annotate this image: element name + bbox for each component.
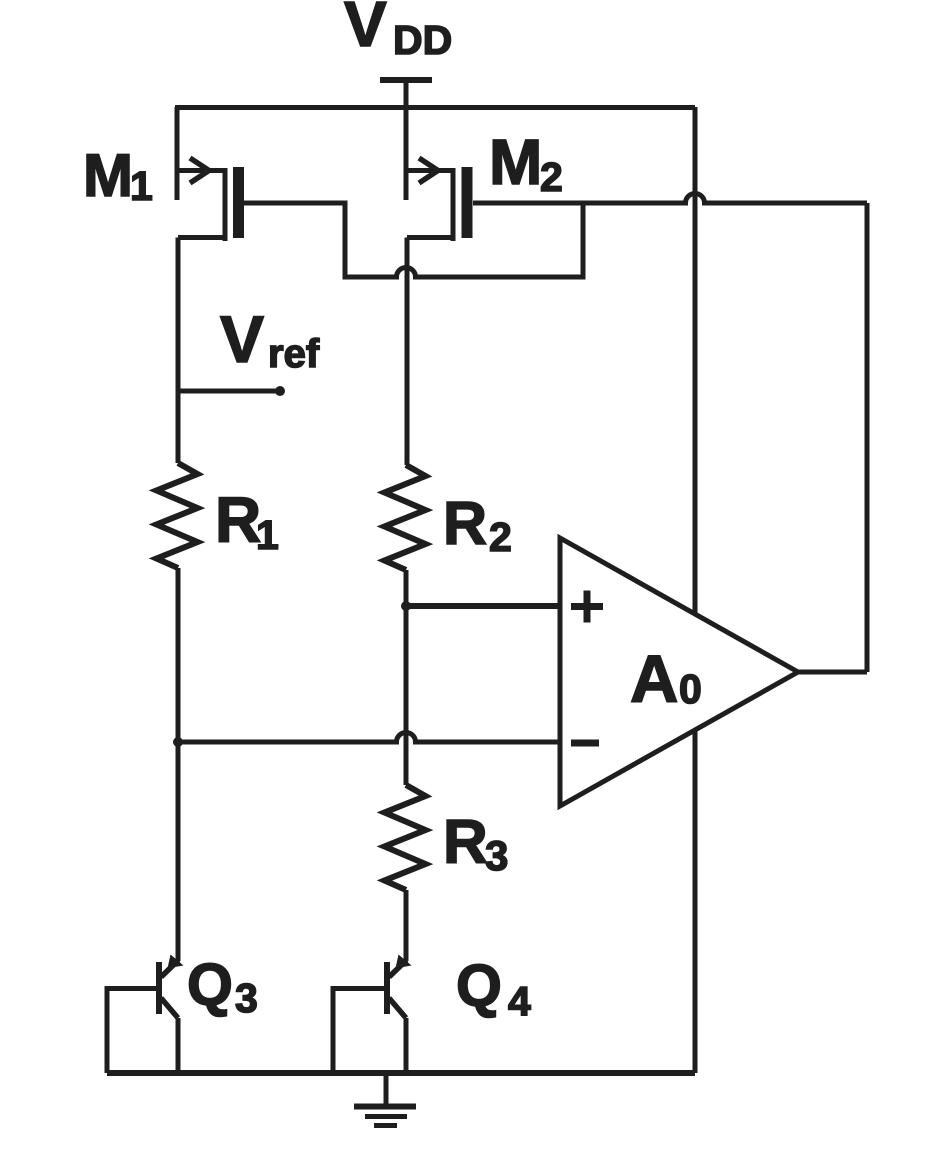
resistor R3 — [385, 785, 426, 890]
M1 label — [83, 142, 153, 209]
wire M2 drain down middle column — [405, 238, 410, 466]
transistor Q4 — [333, 890, 412, 1073]
node minus junction dot — [173, 737, 183, 747]
op-amp A0 triangle — [560, 538, 798, 806]
svg-text:0: 0 — [679, 666, 702, 712]
transistor Q3 — [107, 742, 184, 1073]
node VDD label — [344, 0, 452, 63]
svg-text:1: 1 — [130, 163, 153, 209]
op-amp A0 label — [630, 642, 702, 717]
svg-text:4: 4 — [508, 978, 531, 1024]
svg-text:V: V — [344, 0, 387, 60]
wire feedback to gates — [865, 203, 870, 672]
svg-text:1: 1 — [256, 512, 279, 558]
Q4 label — [456, 953, 531, 1024]
svg-text:M: M — [489, 126, 542, 198]
wire R3 bottom to Q4 — [404, 890, 409, 955]
wire M1 source drop — [175, 107, 180, 200]
svg-text:2: 2 — [489, 514, 512, 560]
wire R2 bottom to R3 top — [404, 570, 409, 785]
transistor M2 — [406, 158, 467, 241]
svg-text:3: 3 — [235, 975, 258, 1021]
wire top VDD rail — [175, 105, 695, 110]
svg-text:Q: Q — [187, 952, 233, 1018]
wire plus input — [406, 603, 560, 609]
transistor M1 — [177, 158, 239, 241]
svg-text:M: M — [83, 142, 133, 209]
ground — [354, 1073, 416, 1126]
wire M1 gate to gate rail — [244, 203, 583, 277]
R1 label — [215, 484, 279, 558]
wire gate rail M2 to feedback — [473, 194, 867, 204]
node Vref dot — [275, 386, 285, 396]
svg-text:R: R — [443, 489, 487, 557]
resistor R2 — [385, 465, 426, 570]
svg-text:R: R — [215, 484, 261, 556]
wire R1 bottom to Q3 — [176, 568, 181, 961]
R3 label — [443, 808, 508, 879]
wire minus input with hop — [178, 733, 560, 743]
Q3 label — [187, 952, 258, 1021]
node plus junction dot — [401, 601, 411, 611]
wire op-amp output — [798, 670, 867, 675]
resistor R1 — [157, 463, 198, 568]
power VDD symbol — [380, 80, 432, 200]
svg-text:V: V — [220, 302, 264, 376]
M2 label — [489, 126, 563, 200]
op-amp plus sign — [571, 591, 603, 623]
svg-text:Q: Q — [456, 953, 502, 1019]
svg-text:DD: DD — [393, 17, 452, 63]
svg-text:ref: ref — [268, 332, 320, 376]
svg-text:R: R — [443, 808, 488, 877]
node Vref tap wire — [178, 389, 277, 394]
svg-text:2: 2 — [540, 154, 563, 200]
svg-text:A: A — [630, 642, 678, 717]
wire right VDD rail down — [693, 107, 698, 1073]
svg-text:3: 3 — [485, 832, 508, 879]
wire bottom rail — [107, 1070, 695, 1076]
node Vref label — [220, 302, 320, 376]
wire M1 drain down left column — [176, 238, 181, 464]
op-amp minus sign — [571, 740, 599, 747]
wire M2 source drop (from VDD stem) — [404, 107, 409, 200]
R2 label — [443, 489, 512, 560]
